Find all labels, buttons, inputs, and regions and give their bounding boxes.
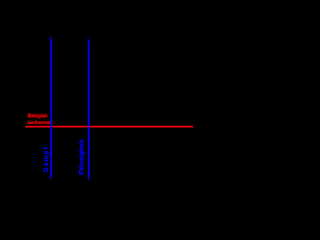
red example-isotherm line (25, 126, 193, 128)
svg-text:isothermen: isothermen (27, 120, 52, 125)
svg-text:Beispiel-: Beispiel- (28, 114, 49, 120)
svg-text:Flüssigkeit: Flüssigkeit (79, 139, 86, 175)
svg-text:Dampf: Dampf (43, 146, 50, 172)
blue vertical line: Fluessigkeit (88, 37, 90, 181)
red label "Beispiel-isothermen" (two lines) (27, 114, 52, 126)
blue vertical line: Dampf (50, 36, 52, 181)
